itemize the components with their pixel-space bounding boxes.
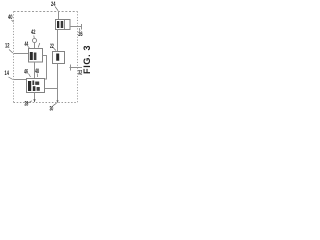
arrowhead bottom output 1 xyxy=(33,99,35,102)
svg-text:26: 26 xyxy=(78,32,83,38)
box U3 left xyxy=(29,49,43,63)
wire U3 output jog down xyxy=(43,56,47,80)
svg-text:40: 40 xyxy=(8,15,13,21)
arrowhead bottom output 2 xyxy=(56,100,58,103)
svg-text:14: 14 xyxy=(5,71,10,77)
svg-text:42: 42 xyxy=(31,30,36,36)
svg-text:44: 44 xyxy=(25,42,29,48)
wire left input 1 xyxy=(14,53,29,55)
wire right stub xyxy=(70,65,83,71)
leader right of circle xyxy=(38,43,40,48)
svg-text:12: 12 xyxy=(5,44,10,50)
label 12 xyxy=(5,44,13,54)
wire U4 right to junction xyxy=(45,88,58,90)
box U2 middle xyxy=(53,52,65,64)
wire right output 1 xyxy=(70,24,82,30)
label 42 xyxy=(31,30,36,38)
dashed enclosure border 40 xyxy=(14,12,78,103)
wire top input xyxy=(58,12,60,20)
svg-text:22: 22 xyxy=(50,44,54,50)
svg-text:30: 30 xyxy=(50,107,54,113)
wire left input 2 xyxy=(14,79,27,81)
label 22 xyxy=(50,44,56,51)
label 28 xyxy=(25,101,32,108)
svg-text:46: 46 xyxy=(24,70,28,76)
wire U3 to U4 xyxy=(34,62,36,79)
label 48 xyxy=(35,69,39,77)
label 30 xyxy=(50,103,57,112)
box U4 lower xyxy=(27,79,45,93)
label 14 xyxy=(5,71,13,80)
box U1 top xyxy=(56,20,71,30)
label 26 xyxy=(78,28,83,38)
label 46 xyxy=(24,70,31,78)
wire U1 to U2 xyxy=(57,30,59,52)
wire U4 bottom output xyxy=(34,93,36,103)
label 44 xyxy=(25,42,30,48)
svg-text:28: 28 xyxy=(25,102,29,108)
node circle above U3 xyxy=(33,39,37,49)
svg-text:FIG. 3: FIG. 3 xyxy=(82,45,92,74)
wire U2 down output xyxy=(57,64,59,103)
label 24 xyxy=(51,2,58,11)
label 40 xyxy=(8,15,14,22)
